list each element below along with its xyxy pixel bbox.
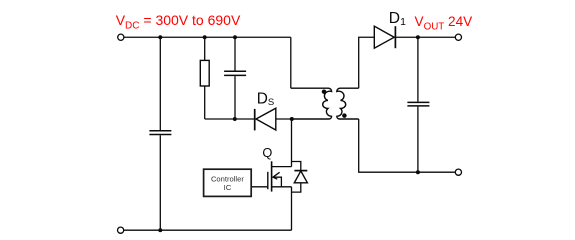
- wire output cap vertical: [417, 37, 419, 172]
- wire secondary top to D1: [359, 37, 375, 88]
- svg-text:VDC = 300V to 690V: VDC = 300V to 690V: [116, 12, 241, 31]
- wire drain vertical: [291, 119, 293, 167]
- node snubber R top: [203, 35, 207, 39]
- node input cap top: [158, 35, 162, 39]
- node output cap top: [416, 35, 420, 39]
- body diode branch bottom: [292, 183, 301, 192]
- wire D1 to output +: [395, 36, 455, 38]
- mosfet Q drain lead: [272, 166, 292, 168]
- body diode cathode bar: [294, 170, 307, 172]
- mosfet Q body arrow: [273, 172, 280, 179]
- wire resistor bottom: [204, 86, 206, 119]
- capacitor Cout: [407, 102, 429, 106]
- output terminal +: [455, 34, 461, 40]
- wire gate lead: [251, 186, 267, 188]
- wire resistor top: [204, 37, 206, 60]
- node output cap bottom: [416, 170, 420, 174]
- wire bottom rail: [124, 229, 292, 231]
- body diode triangle: [294, 171, 307, 183]
- input terminal +: [118, 34, 124, 40]
- transformer primary polarity dot: [322, 89, 327, 94]
- wire rail to primary top: [290, 37, 292, 88]
- svg-text:Q: Q: [262, 145, 272, 160]
- wire input cap vertical: [159, 37, 161, 230]
- resistor snubber R: [200, 60, 209, 86]
- output terminal -: [455, 169, 461, 175]
- wire snubber cap vertical: [234, 37, 236, 119]
- svg-text:VOUT 24V: VOUT 24V: [415, 14, 473, 32]
- mosfet Q gate bar: [267, 172, 269, 189]
- input terminal -: [118, 227, 124, 233]
- diode DS cathode bar: [254, 109, 256, 130]
- capacitor snubber C: [224, 71, 246, 75]
- wire secondary bottom to output -: [359, 119, 456, 172]
- svg-text:IC: IC: [224, 183, 232, 192]
- node snubber C top: [233, 35, 237, 39]
- svg-text:DS: DS: [257, 91, 274, 108]
- transformer secondary polarity dot: [342, 113, 347, 118]
- body diode branch top: [292, 162, 301, 171]
- mosfet Q channel bar: [271, 161, 273, 191]
- node drain junction: [290, 117, 294, 121]
- svg-text:D1: D1: [389, 10, 406, 28]
- node snubber cap bottom: [233, 117, 237, 121]
- controller IC box: [204, 169, 252, 196]
- node input cap bottom: [158, 228, 162, 232]
- diode D1 triangle: [374, 26, 394, 48]
- mosfet Q source lead: [272, 186, 292, 188]
- diode DS triangle: [256, 108, 276, 130]
- mosfet Q body wire: [273, 177, 282, 187]
- wire DS to drain node: [276, 118, 292, 120]
- transformer T1 primary winding: [291, 88, 332, 119]
- transformer T1 secondary winding: [337, 88, 359, 119]
- wire snubber bottom: [205, 118, 255, 120]
- wire source vertical: [291, 187, 293, 230]
- wire top rail: [124, 36, 291, 38]
- diode D1 cathode bar: [394, 26, 396, 48]
- capacitor Cin: [149, 131, 171, 135]
